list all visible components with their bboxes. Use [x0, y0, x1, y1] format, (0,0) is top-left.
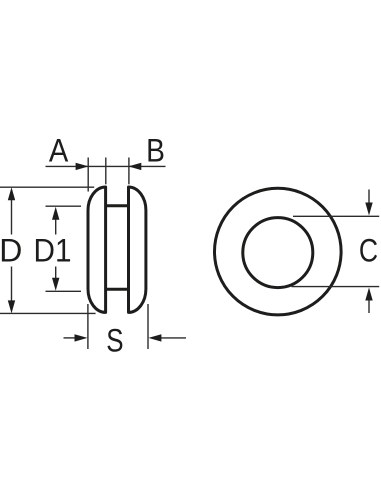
dim A arrowhead — [76, 163, 89, 170]
D bottom arrowhead — [8, 300, 15, 313]
C bottom arrow shaft — [368, 300, 370, 313]
C top arrow shaft — [368, 190, 370, 204]
D1 top extension line — [46, 205, 82, 207]
C bottom arrowhead — [365, 288, 372, 301]
tick extension line left (outer-left edge) — [87, 158, 89, 192]
svg-text:S: S — [106, 322, 123, 358]
grommet left wall (section) — [88, 187, 106, 312]
D bottom extension line — [0, 312, 96, 314]
tick extension line middle (inner-left edge) — [105, 158, 107, 185]
D dimension line upper segment — [11, 196, 13, 235]
S left arrowhead — [75, 334, 88, 341]
svg-text:D1: D1 — [34, 233, 72, 269]
outer circle (front view) — [214, 188, 341, 315]
C top arrowhead — [365, 203, 372, 216]
grommet right wall (section) — [129, 187, 146, 312]
svg-text:C: C — [359, 233, 378, 269]
svg-text:B: B — [146, 133, 165, 169]
D1 bottom arrowhead — [52, 278, 59, 291]
web top line — [106, 204, 129, 207]
S left dimension line — [64, 337, 78, 339]
S right arrowhead — [148, 334, 161, 341]
web bottom line — [106, 288, 129, 291]
dimension line A-B — [46, 165, 166, 167]
svg-text:D: D — [0, 233, 22, 269]
D dimension line lower segment — [11, 267, 13, 306]
D1 top arrowhead — [52, 207, 59, 220]
D1 bottom extension line — [46, 290, 82, 292]
tick extension line right (inner-right edge) — [128, 158, 130, 185]
D1 dimension line lower segment — [55, 267, 57, 284]
C bottom extension line — [292, 286, 380, 288]
C top extension line — [293, 215, 379, 217]
D top arrowhead — [8, 187, 15, 200]
dim B arrowhead — [128, 163, 141, 170]
S left extension line — [87, 304, 89, 349]
D top extension line — [0, 186, 94, 188]
D1 dimension line upper segment — [55, 215, 57, 235]
inner circle (front view) — [243, 218, 313, 288]
svg-text:A: A — [49, 133, 69, 169]
S right extension line — [147, 304, 149, 349]
S right dimension line — [159, 337, 186, 339]
